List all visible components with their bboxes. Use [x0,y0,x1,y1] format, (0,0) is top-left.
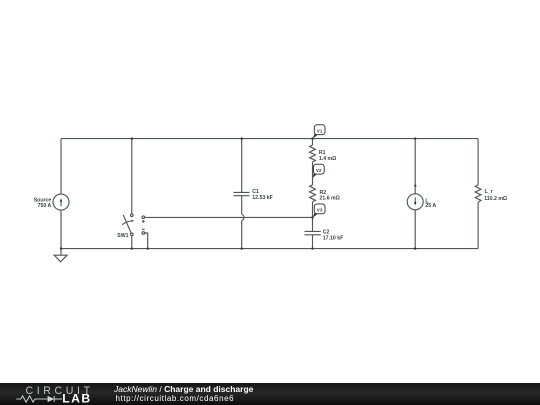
svg-text:17.10 kF: 17.10 kF [323,236,343,242]
svg-text:V2: V2 [316,168,322,173]
svg-text:SW1: SW1 [117,233,128,239]
svg-text:L_r: L_r [485,189,493,195]
svg-text:21.6 mΩ: 21.6 mΩ [320,196,340,202]
svg-text:12.53 kF: 12.53 kF [252,195,272,201]
svg-text:110.2 mΩ: 110.2 mΩ [484,196,507,202]
svg-text:LAB: LAB [62,392,92,405]
svg-text:750 A: 750 A [38,203,52,209]
svg-text:C2: C2 [323,229,330,235]
svg-text:V3: V3 [317,208,323,213]
svg-text:1.4 mΩ: 1.4 mΩ [319,156,336,162]
svg-text:V1: V1 [317,128,323,133]
svg-text:25 A: 25 A [425,203,436,209]
